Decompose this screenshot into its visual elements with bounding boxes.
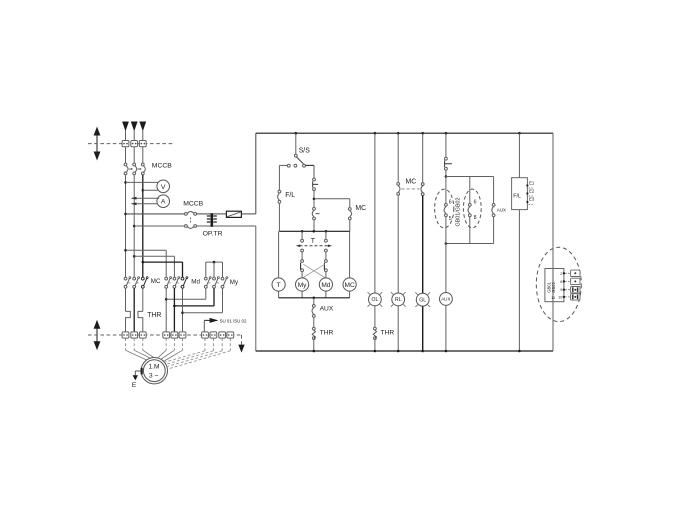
svg-text:THR: THR	[381, 329, 395, 336]
svg-text:MC: MC	[344, 282, 354, 289]
svg-text:AUX: AUX	[497, 207, 506, 212]
svg-text:GB01/GB02: GB01/GB02	[455, 197, 461, 226]
svg-text:THR: THR	[320, 329, 334, 336]
svg-text:V: V	[161, 184, 166, 191]
svg-text:F/L: F/L	[513, 193, 521, 199]
svg-text:Md: Md	[321, 282, 330, 289]
svg-text:A: A	[161, 199, 166, 206]
svg-text:8: 8	[474, 215, 477, 221]
svg-text:E: E	[132, 382, 137, 389]
svg-text:AUX: AUX	[320, 306, 334, 313]
svg-text:MCCB: MCCB	[183, 200, 203, 207]
svg-text:MC: MC	[355, 205, 366, 212]
svg-text:6: 6	[474, 199, 477, 205]
svg-text:E1: E1	[529, 180, 535, 185]
svg-text:OP.TR: OP.TR	[203, 230, 223, 237]
svg-text:MC: MC	[151, 278, 161, 285]
svg-text:MC: MC	[406, 178, 417, 185]
svg-text:OL: OL	[372, 297, 379, 303]
svg-text:GB02: GB02	[551, 281, 556, 292]
svg-text:RL: RL	[395, 297, 402, 303]
svg-text:1.M: 1.M	[149, 364, 160, 371]
svg-text:AUX: AUX	[441, 297, 450, 302]
svg-text:GL: GL	[419, 297, 426, 303]
svg-text:T: T	[277, 282, 281, 289]
svg-text:S/S: S/S	[299, 147, 311, 154]
svg-text:2: 2	[560, 272, 562, 276]
svg-text:6: 6	[560, 280, 562, 284]
svg-text:MCCB: MCCB	[152, 163, 172, 170]
svg-text:My: My	[298, 282, 307, 289]
svg-text:Md: Md	[191, 279, 200, 286]
svg-text:E3: E3	[529, 197, 535, 202]
svg-text:F/L: F/L	[285, 192, 295, 199]
svg-text:11: 11	[551, 296, 555, 300]
svg-text:3 ~: 3 ~	[149, 372, 159, 379]
svg-text:9: 9	[560, 288, 562, 292]
svg-text:6: 6	[449, 199, 452, 205]
svg-text:E2: E2	[529, 188, 535, 193]
svg-text:My: My	[230, 279, 239, 286]
svg-text:10: 10	[558, 295, 562, 299]
svg-text:SU 01 /SU 02: SU 01 /SU 02	[220, 318, 247, 323]
svg-text:THR: THR	[147, 312, 161, 319]
